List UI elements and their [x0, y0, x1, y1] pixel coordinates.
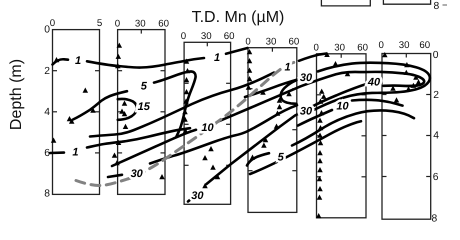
panel P4 box: [248, 48, 297, 213]
svg-text:30: 30: [399, 40, 410, 51]
svg-text:8: 8: [432, 213, 438, 224]
svg-text:30: 30: [131, 168, 144, 180]
contour 5 right (P4-P6): [247, 110, 414, 165]
svg-text:5: 5: [278, 152, 285, 164]
panel P5 box: [317, 54, 367, 218]
P4 top axis mid tick: [271, 48, 273, 52]
svg-text:60: 60: [419, 40, 430, 51]
P5 depth ticks: [317, 94, 322, 96]
data triangles P3 lower right: [202, 146, 220, 188]
svg-text:1: 1: [284, 62, 290, 74]
cropped panel bottom A (top-right, from row above): [321, 0, 370, 6]
data triangles P4 left edge: [246, 49, 253, 90]
P3 top axis mid tick: [206, 42, 208, 46]
svg-text:30: 30: [334, 43, 345, 54]
panel P3 box: [184, 42, 231, 204]
svg-text:5: 5: [97, 18, 102, 29]
panel P6 box: [382, 54, 431, 220]
svg-text:60: 60: [357, 43, 368, 54]
gray dashed line: [76, 62, 297, 186]
svg-text:30: 30: [201, 31, 212, 42]
P1 depth ticks: [53, 70, 58, 72]
svg-text:0: 0: [44, 24, 50, 35]
contour 10 rising into inner 40 hairpin: [112, 72, 424, 166]
svg-text:1: 1: [72, 147, 78, 159]
data triangles P2: [112, 43, 165, 180]
svg-text:0: 0: [115, 18, 121, 29]
panel P1 box: [53, 30, 100, 195]
contour 30 left through P2 label into P4: [108, 105, 297, 177]
contour 30 upper with U-hook and outer hairpin: [245, 63, 430, 110]
P2 depth ticks: [118, 70, 123, 72]
svg-text:2: 2: [44, 66, 50, 77]
data triangles P5: [316, 52, 350, 218]
contour 15 loop at P2 left edge: [118, 99, 137, 120]
small gray dash right of 8: [443, 4, 448, 6]
contour below 5 right: [250, 121, 361, 174]
svg-text:30: 30: [266, 37, 277, 48]
svg-text:4: 4: [433, 130, 439, 141]
svg-text:6: 6: [433, 172, 439, 183]
svg-text:15: 15: [138, 101, 151, 113]
svg-text:30: 30: [300, 72, 313, 84]
contour 1 lower (P1-P2): [50, 128, 190, 153]
svg-text:2: 2: [433, 90, 439, 101]
svg-text:T.D. Mn (µM): T.D. Mn (µM): [192, 9, 285, 26]
P2 top axis mid tick: [140, 30, 142, 34]
svg-text:4: 4: [44, 107, 50, 118]
svg-text:0: 0: [50, 18, 56, 29]
contour 1 deep branch rising to P5 surface: [90, 54, 327, 137]
svg-text:10: 10: [336, 101, 349, 113]
P4 depth ticks: [248, 88, 253, 90]
P6 top axis mid tick: [405, 54, 407, 58]
P5 top axis mid tick: [340, 54, 342, 58]
svg-text:8: 8: [44, 188, 50, 199]
svg-text:30: 30: [191, 190, 204, 202]
contour 30 rising from label to 40 label gap: [311, 84, 366, 107]
svg-text:0: 0: [379, 40, 385, 51]
contour 10 right (through P5 label): [298, 100, 403, 126]
P3 depth ticks: [184, 82, 189, 84]
svg-text:60: 60: [289, 37, 300, 48]
svg-text:5: 5: [141, 81, 148, 93]
svg-text:8: 8: [434, 1, 440, 12]
svg-text:1: 1: [75, 55, 81, 67]
svg-text:30: 30: [300, 105, 313, 117]
contour 5 left with hook at P3: [73, 71, 196, 136]
svg-text:60: 60: [224, 31, 235, 42]
data triangles P3 left edge: [182, 59, 190, 134]
svg-text:Depth (m): Depth (m): [8, 59, 25, 130]
cropped panel bottom B (top-right, from row above): [383, 0, 430, 4]
data triangles P6: [382, 52, 421, 103]
svg-text:30: 30: [135, 18, 146, 29]
contour 1 upper (P1-P4): [53, 48, 248, 68]
svg-text:1: 1: [214, 52, 220, 64]
svg-text:0: 0: [314, 43, 320, 54]
contour 30 long diagonal from P3 bottom: [188, 112, 303, 202]
data triangles P1: [51, 57, 96, 143]
svg-text:0: 0: [433, 50, 439, 61]
svg-text:40: 40: [367, 76, 381, 88]
svg-text:60: 60: [158, 18, 169, 29]
data triangles P4 interior: [250, 90, 292, 160]
svg-text:10: 10: [201, 122, 214, 134]
panel P2 box: [118, 30, 165, 195]
svg-text:0: 0: [245, 37, 251, 48]
svg-text:0: 0: [181, 31, 187, 42]
P6 depth ticks: [382, 94, 387, 96]
